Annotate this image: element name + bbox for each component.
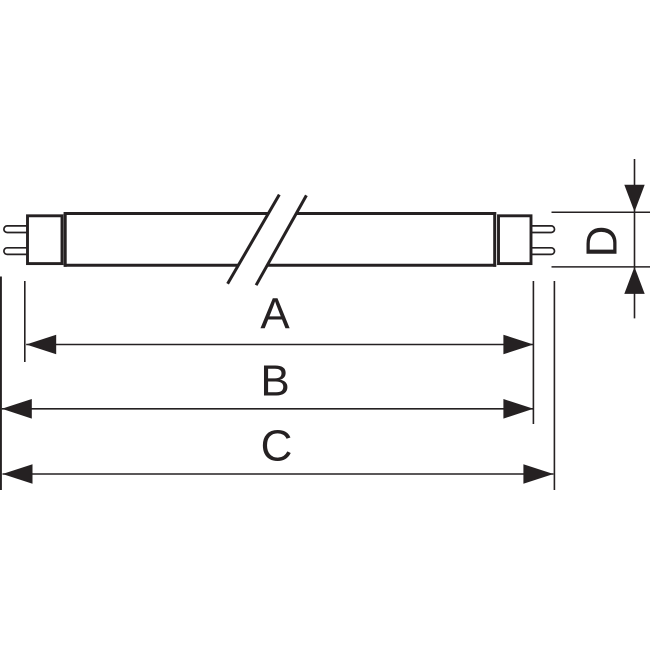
tube body top line left segment <box>64 212 269 215</box>
dimension D extension line bottom <box>552 266 650 268</box>
extension line left A (pin base / cap face) <box>24 281 26 362</box>
dimension D line <box>634 159 636 318</box>
right end cap <box>499 216 532 264</box>
right pin bottom <box>531 248 555 255</box>
extension line right A B (cap face) <box>532 281 534 424</box>
tube left end face <box>64 212 67 267</box>
svg-text:D: D <box>578 226 627 258</box>
tube body bottom line right segment <box>268 264 497 267</box>
right pin top <box>531 226 555 233</box>
dimension D top arrowhead <box>624 185 644 212</box>
dimension D extension line top <box>552 211 650 213</box>
left pin bottom <box>4 248 28 255</box>
break line left <box>228 195 280 284</box>
extension line right C (pin tip) <box>553 281 555 490</box>
dimension C right arrowhead <box>523 464 553 484</box>
tube right end face <box>493 212 496 267</box>
tube body top line right segment <box>297 212 497 215</box>
dimension A line <box>26 344 533 346</box>
svg-text:A: A <box>260 290 290 339</box>
dimension A right arrowhead <box>503 335 533 355</box>
dimension B right arrowhead <box>503 399 533 419</box>
break line right <box>256 195 306 285</box>
dimension A left arrowhead <box>26 335 56 355</box>
svg-text:B: B <box>260 357 289 406</box>
dimension C left arrowhead <box>3 464 33 484</box>
tube body bottom line left segment <box>64 264 239 267</box>
dimension B left arrowhead <box>2 399 32 419</box>
left end cap <box>28 216 63 264</box>
left pin top <box>4 226 28 233</box>
extension line left B C (pin tip) <box>0 277 2 491</box>
dimension D bottom arrowhead <box>624 267 644 294</box>
dimension C line <box>3 473 554 475</box>
svg-text:C: C <box>261 421 293 470</box>
dimension B line <box>2 408 534 410</box>
